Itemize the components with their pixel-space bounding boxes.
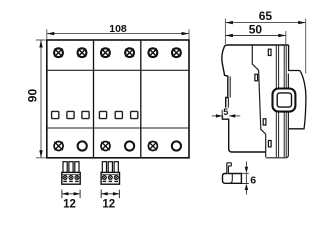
- svg-text:12: 12: [63, 199, 76, 211]
- svg-text:50: 50: [249, 23, 263, 37]
- svg-text:108: 108: [109, 23, 127, 35]
- svg-text:6: 6: [250, 174, 256, 186]
- svg-text:65: 65: [259, 9, 273, 23]
- svg-text:12: 12: [102, 199, 115, 211]
- svg-text:90: 90: [26, 89, 40, 103]
- svg-text:5: 5: [223, 107, 228, 117]
